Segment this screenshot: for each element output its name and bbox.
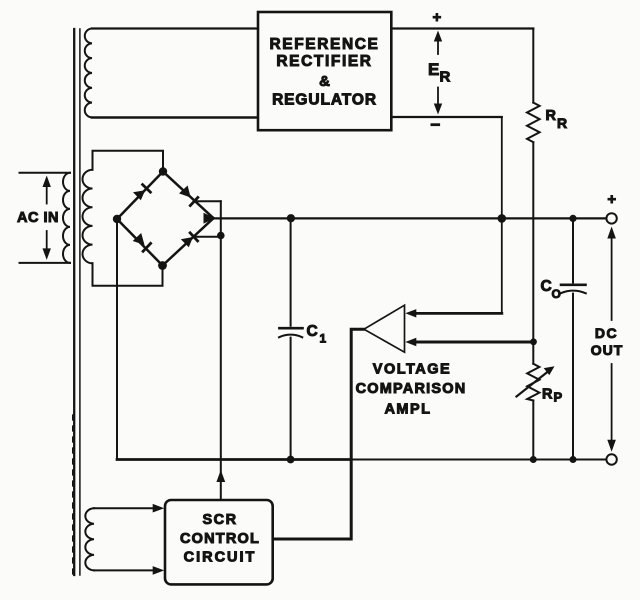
svg-text:+: + [433, 9, 442, 26]
reference rectifier box U1 [258, 12, 391, 130]
svg-text:SCR: SCR [202, 512, 237, 528]
wire bus down to opamp upper input corner [501, 218, 503, 313]
wire middle secondary top lead [93, 151, 164, 172]
DC OUT dimension arrow lower [607, 364, 616, 452]
svg-text:COMPARISON: COMPARISON [356, 381, 467, 397]
svg-text:+: + [607, 191, 616, 208]
wire RP bottom to bus [532, 401, 534, 460]
wire SCR winding upper lead [94, 504, 164, 513]
wire opamp lower input [416, 341, 534, 344]
wire bridge left node down to bottom bus [116, 219, 118, 460]
label SCR control circuit [180, 512, 260, 565]
op-amp U2 triangle [364, 305, 405, 352]
node bridge bottom [158, 261, 167, 270]
svg-text:AMPL: AMPL [384, 401, 431, 417]
node dot RP bottom [530, 456, 537, 463]
wire top secondary lower lead to box [92, 116, 258, 118]
bridge rectifier diamond edges [117, 172, 214, 266]
resistor RR zigzag [527, 103, 540, 143]
wire bottom bus negative rail right part [351, 459, 606, 461]
wire RR top vertical [532, 29, 534, 103]
diode CR3 bottom-left [133, 233, 151, 251]
wire primary lower lead [20, 262, 71, 264]
wire opamp output [273, 329, 364, 539]
svg-text:E: E [428, 60, 439, 79]
svg-text:C: C [307, 323, 318, 340]
svg-text:&: & [319, 73, 330, 90]
wire box to ER plus corner [391, 27, 533, 29]
wire primary upper lead [20, 172, 71, 174]
capacitor CO [561, 218, 586, 459]
node bridge left [113, 215, 121, 223]
arrowhead into bus from SCR control [216, 470, 225, 482]
node dot CO bottom [570, 456, 577, 463]
svg-text:AC IN: AC IN [17, 210, 59, 226]
winding W1 top secondary [85, 29, 92, 118]
wire CR2 cathode tap [194, 200, 221, 202]
DC OUT dimension arrow upper [607, 227, 616, 321]
node bridge top [159, 167, 167, 175]
terminal positive output [606, 213, 616, 223]
svg-text:DC: DC [595, 325, 618, 341]
wire RR bottom vertical through bus to RP [532, 142, 534, 364]
ER dimension arrow lower [434, 88, 442, 115]
svg-text:R: R [440, 68, 451, 85]
svg-text:R: R [557, 115, 567, 131]
svg-text:CONTROL: CONTROL [180, 531, 260, 547]
winding W3 middle secondary [83, 170, 93, 263]
svg-text:O: O [552, 287, 561, 301]
wire SCR anode vertical [220, 201, 222, 500]
node dot CO top [569, 215, 576, 222]
op-amp lower input arrowhead [405, 338, 416, 346]
AC IN dimension arrows [43, 176, 51, 260]
wire middle secondary bottom lead [93, 263, 163, 286]
svg-text:REGULATOR: REGULATOR [272, 92, 377, 109]
node dot reference minus on bus [498, 214, 507, 223]
ER dimension arrow upper [434, 31, 442, 55]
node dot lower input on RR line [530, 338, 537, 345]
node dot C1 bottom [287, 456, 295, 464]
label reference rectifier text [270, 36, 380, 109]
wire top bus positive rail [213, 217, 612, 219]
label voltage comparison ampl [356, 361, 467, 417]
diode CR2 top-right [179, 186, 198, 206]
winding W4 bottom secondary [85, 508, 94, 570]
svg-text:VOLTAGE: VOLTAGE [373, 361, 451, 377]
op-amp upper input arrowhead [405, 309, 416, 317]
RP arrow diagonal [517, 366, 555, 396]
svg-text:P: P [554, 390, 563, 405]
svg-text:CIRCUIT: CIRCUIT [184, 550, 257, 566]
svg-text:REFERENCE: REFERENCE [270, 36, 380, 53]
label DC OUT [591, 325, 624, 358]
terminal negative output [606, 454, 616, 464]
resistor RP zigzag variable [527, 364, 539, 401]
wire SCR winding lower lead [94, 566, 164, 575]
node bridge right output arrow [204, 213, 216, 224]
svg-text:C: C [541, 278, 552, 295]
node cathode junction dot [217, 232, 225, 240]
wire top secondary upper lead to box [92, 27, 258, 29]
wire minus corner down to bus [501, 117, 503, 218]
svg-text:R: R [546, 108, 557, 124]
label minus below wire [431, 123, 441, 126]
capacitor C1 [279, 218, 303, 459]
diode CR1 top-left [133, 185, 150, 201]
SCR control circuit box U3 [165, 500, 273, 584]
wire CR4 cathode tap [194, 236, 221, 238]
wire bottom bus negative rail left part [117, 458, 351, 461]
svg-text:1: 1 [320, 332, 327, 346]
diode CR4 bottom-right [181, 233, 198, 247]
svg-text:R: R [542, 386, 553, 402]
wire opamp upper input [416, 312, 502, 315]
svg-text:RECTIFIER: RECTIFIER [276, 53, 372, 70]
wire box minus to corner [391, 116, 502, 118]
winding W2 primary [63, 173, 70, 263]
transformer T1 core [73, 29, 80, 575]
svg-text:OUT: OUT [591, 342, 624, 358]
node dot C1 top [287, 214, 295, 222]
